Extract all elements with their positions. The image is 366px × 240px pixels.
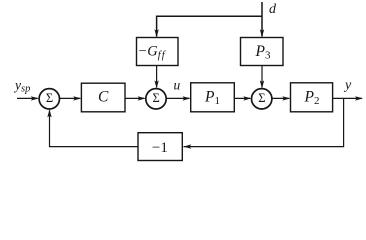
block C — [81, 83, 125, 112]
arrowhead into S3 — [243, 96, 251, 100]
wire S3 to block P2 — [272, 97, 289, 99]
wire P3 to sum S3 — [261, 66, 263, 88]
svg-text:Σ: Σ — [153, 91, 160, 105]
arrowhead -Gff into S2 — [154, 80, 158, 88]
svg-text:u: u — [174, 77, 181, 92]
wire feedback -1 to sum S1 — [50, 110, 139, 146]
summing junction S1 — [39, 89, 59, 109]
arrowhead feedback into S1 bottom — [47, 109, 51, 117]
block -1 — [138, 133, 182, 161]
block P3 — [241, 38, 284, 66]
wire P2 to output y — [333, 97, 362, 99]
wire C to sum S2 — [125, 97, 145, 99]
arrowhead into P1 — [183, 96, 191, 100]
wire feedforward top branch — [157, 16, 262, 36]
arrowhead into -1 box — [183, 144, 191, 148]
block P2 — [291, 83, 333, 112]
arrowhead into S2 — [138, 96, 146, 100]
svg-text:C: C — [98, 89, 109, 106]
summing junction S3 — [252, 89, 272, 109]
wire d vertical into P3 — [261, 2, 263, 37]
wire P1 to sum S3 — [234, 97, 250, 99]
wire S1 to block C — [60, 97, 80, 99]
svg-text:d: d — [269, 2, 277, 17]
wire input ysp to sum S1 — [17, 97, 38, 99]
arrowhead into -Gff top — [154, 29, 158, 37]
arrowhead into C — [73, 96, 81, 100]
svg-text:y: y — [343, 78, 352, 93]
arrowhead P3 into S3 — [260, 80, 264, 88]
svg-text:Σ: Σ — [258, 91, 265, 105]
wire S2 to block P1 (signal u) — [167, 97, 190, 99]
block -Gff — [137, 38, 179, 66]
arrowhead into P2 — [282, 96, 290, 100]
block P1 — [191, 83, 235, 112]
arrowhead output y — [355, 96, 363, 100]
summing junction S2 — [146, 89, 166, 109]
arrowhead into S1 — [31, 96, 39, 100]
svg-text:−1: −1 — [152, 140, 168, 156]
svg-text:Σ: Σ — [46, 91, 53, 105]
wire feedback from output down — [184, 98, 344, 146]
wire -Gff to sum S2 — [156, 66, 158, 88]
arrowhead into P3 top — [260, 29, 264, 37]
